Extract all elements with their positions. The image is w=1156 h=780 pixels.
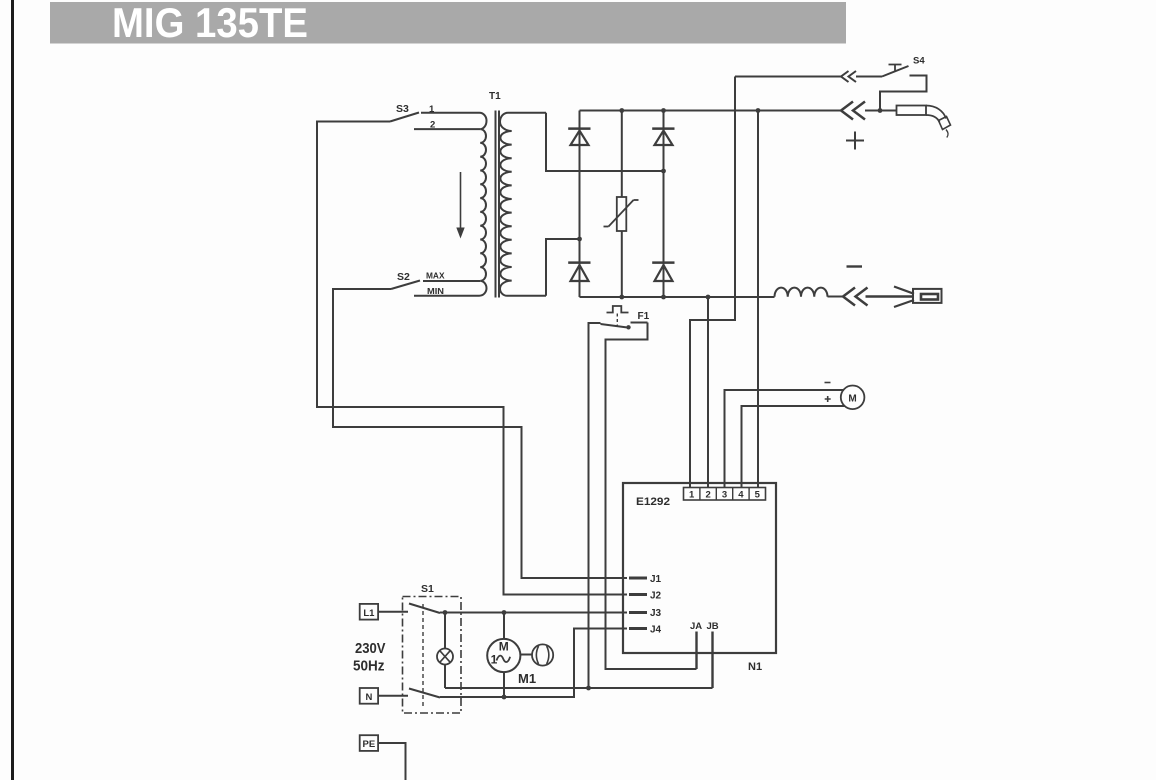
svg-text:T1: T1 — [489, 91, 501, 102]
svg-text:J1: J1 — [650, 574, 662, 585]
svg-text:JB: JB — [707, 621, 719, 632]
svg-text:S1: S1 — [421, 583, 434, 595]
svg-text:3: 3 — [722, 490, 727, 501]
svg-text:M1: M1 — [518, 671, 536, 686]
svg-text:N1: N1 — [748, 661, 762, 673]
svg-text:M: M — [848, 393, 856, 404]
svg-text:J4: J4 — [650, 625, 662, 636]
svg-text:E1292: E1292 — [636, 496, 670, 508]
svg-text:1: 1 — [689, 490, 695, 501]
svg-text:1: 1 — [491, 653, 498, 667]
svg-text:S3: S3 — [396, 103, 409, 115]
svg-text:2: 2 — [430, 120, 435, 131]
svg-text:J2: J2 — [650, 591, 662, 602]
svg-text:5: 5 — [755, 490, 761, 501]
svg-text:L1: L1 — [363, 608, 375, 619]
svg-text:MIG 135TE: MIG 135TE — [112, 0, 308, 46]
svg-text:MIN: MIN — [427, 286, 444, 296]
svg-text:JA: JA — [690, 621, 702, 632]
svg-text:F1: F1 — [638, 311, 650, 322]
svg-text:PE: PE — [363, 739, 376, 750]
svg-text:M: M — [499, 640, 509, 654]
svg-text:MAX: MAX — [426, 271, 445, 281]
svg-text:2: 2 — [705, 490, 710, 501]
svg-text:J3: J3 — [650, 608, 662, 619]
svg-text:S4: S4 — [913, 56, 925, 67]
svg-text:50Hz: 50Hz — [353, 658, 385, 675]
svg-text:4: 4 — [738, 490, 744, 501]
svg-text:N: N — [365, 692, 372, 703]
svg-text:1: 1 — [429, 104, 435, 115]
svg-text:230V: 230V — [355, 640, 386, 657]
svg-text:S2: S2 — [397, 271, 410, 283]
